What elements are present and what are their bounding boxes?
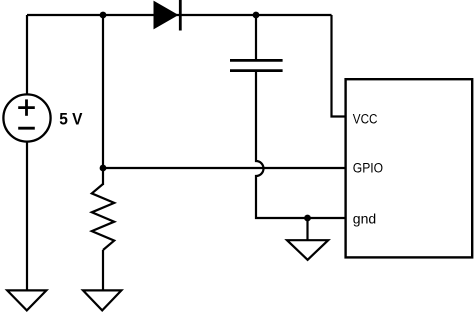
wire cap bottom lead with hop over GPIO then gnd rail [256, 71, 346, 218]
wire top rail [27, 14, 332, 16]
wire ground stem [306, 218, 308, 240]
svg-text:VCC: VCC [353, 112, 378, 127]
wire vertical at x=103 (top rail to resistor) [102, 15, 104, 185]
plus sign [18, 99, 35, 115]
wire resistor to ground [102, 250, 104, 290]
node junction dot top capacitor [253, 12, 260, 19]
svg-text:GPIO: GPIO [353, 161, 383, 176]
diode D1 [154, 2, 178, 29]
svg-text:5 V: 5 V [59, 109, 83, 128]
ground (left) [7, 290, 46, 310]
wire source bottom to ground [26, 142, 28, 290]
ground (middle) [83, 290, 121, 310]
node junction dot top-left [100, 12, 107, 19]
wire GPIO rail [103, 167, 346, 169]
capacitor C1 [230, 60, 283, 70]
diode cathode bar [179, 0, 182, 31]
node junction dot GPIO tap [100, 165, 107, 172]
wire left vertical (top rail to source) [26, 15, 28, 95]
voltage source V1 [3, 94, 50, 141]
resistor R1 [92, 184, 114, 250]
svg-text:gnd: gnd [353, 211, 376, 226]
wire cap top lead [255, 15, 257, 60]
minus sign [18, 127, 35, 130]
node junction dot gnd rail [304, 215, 311, 222]
IC U1 box [346, 79, 473, 257]
ground (near IC) [287, 240, 328, 260]
wire VCC feed [332, 15, 346, 117]
